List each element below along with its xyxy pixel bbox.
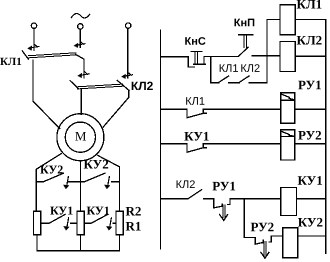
coil KU2 bbox=[283, 228, 298, 258]
KL1 coil feed wire bbox=[267, 18, 280, 20]
svg-text:КЛ2: КЛ2 bbox=[131, 79, 154, 93]
rung 2 wire bbox=[161, 108, 187, 110]
coil KL1 bbox=[280, 5, 295, 35]
svg-text:КУ1: КУ1 bbox=[184, 129, 209, 144]
wire KL2 pole1 output to motor bbox=[80, 89, 82, 115]
svg-text:РУ2: РУ2 bbox=[298, 128, 322, 143]
wire L1 vertical bbox=[33, 28, 35, 50]
svg-text:R2: R2 bbox=[125, 203, 141, 218]
contact tip arrow KL2 pole1 bbox=[81, 74, 89, 75]
coil RU1 (time relay) bbox=[281, 93, 295, 124]
rotor wire middle bbox=[79, 161, 81, 212]
terminal L1 bbox=[31, 23, 36, 28]
svg-text:КЛ2: КЛ2 bbox=[176, 179, 196, 191]
contactor KL2 main contacts (blade + linkage bar) bbox=[70, 81, 79, 89]
wire L3 vertical bbox=[127, 28, 129, 78]
resistor left section bbox=[33, 211, 40, 234]
contact KU2 left bbox=[36, 181, 43, 183]
svg-text:М: М bbox=[75, 129, 87, 144]
svg-text:КнС: КнС bbox=[185, 36, 206, 48]
contact KL1 (rung 2) bbox=[186, 109, 188, 117]
button KnP (start, NO) bbox=[239, 47, 249, 56]
rotor wire right bbox=[98, 156, 120, 212]
coil KL2 bbox=[280, 41, 295, 71]
svg-text:КУ2: КУ2 bbox=[298, 215, 323, 230]
rung 4 wire bbox=[161, 198, 189, 200]
svg-text:КЛ1: КЛ1 bbox=[219, 63, 239, 75]
rung 4 wire to coil KU1 bbox=[230, 198, 281, 200]
svg-text:КУ1: КУ1 bbox=[86, 203, 109, 217]
contact KL1 (holding) bbox=[219, 76, 229, 82]
contact RU2 (time-delay, NC) bbox=[255, 242, 263, 244]
wire to coil KU2 bbox=[271, 235, 283, 237]
resistor right section R2/R1 bbox=[116, 211, 123, 234]
svg-text:РУ2: РУ2 bbox=[250, 219, 274, 234]
rotor bottom wires bbox=[36, 235, 38, 251]
rung 3 wire bbox=[161, 143, 187, 145]
contact tip arrow L1 bbox=[31, 46, 39, 47]
terminal L3 bbox=[126, 23, 131, 28]
motor M stator circle bbox=[57, 114, 104, 161]
contact RU1 (time-delay, NC) bbox=[213, 199, 215, 208]
rung 1 wire after KnS bbox=[204, 55, 239, 57]
svg-text:РУ1: РУ1 bbox=[212, 178, 236, 193]
svg-text:КЛ2: КЛ2 bbox=[297, 33, 323, 48]
control bus right bbox=[325, 19, 327, 253]
wire L2 vertical bbox=[79, 29, 81, 47]
holding branch wire bbox=[211, 82, 219, 84]
motor M rotor circle bbox=[65, 122, 95, 152]
branch riser to RU2 contact bbox=[244, 199, 255, 244]
svg-text:КУ1: КУ1 bbox=[297, 173, 322, 188]
contact KL2 (rung 4) bbox=[188, 190, 202, 199]
svg-text:КУ2: КУ2 bbox=[83, 156, 108, 171]
svg-text:R1: R1 bbox=[125, 218, 141, 233]
resistor middle section bbox=[77, 211, 84, 234]
rotor common bottom wire bbox=[37, 250, 120, 252]
terminal L2 bbox=[78, 24, 83, 29]
svg-text:КУ1: КУ1 bbox=[50, 203, 73, 217]
svg-text:КУ2: КУ2 bbox=[40, 162, 63, 176]
svg-text:КЛ1: КЛ1 bbox=[185, 96, 205, 108]
control bus left bbox=[160, 30, 162, 249]
coil RU2 (time relay) bbox=[281, 130, 295, 160]
svg-text:КЛ1: КЛ1 bbox=[0, 56, 22, 68]
AC supply tilde bbox=[71, 14, 90, 18]
contact KU2 right bbox=[80, 181, 84, 183]
wire KL2 pole2 output to motor bbox=[103, 90, 128, 127]
coil KU1 bbox=[281, 188, 297, 216]
contactor KL1 main contacts (blade + linkage bar) bbox=[22, 51, 28, 59]
rung 1 wire after KnP bbox=[252, 55, 280, 57]
svg-text:РУ1: РУ1 bbox=[298, 77, 322, 92]
wire KL1 pole1 output to motor bbox=[33, 60, 60, 128]
contact KL2 (holding) bbox=[239, 76, 249, 82]
contact tip arrow L2 bbox=[77, 44, 85, 45]
svg-text:КЛ1: КЛ1 bbox=[297, 0, 323, 12]
riser feeding KL1 coil and holding branch bbox=[266, 19, 268, 82]
svg-text:КЛ2: КЛ2 bbox=[240, 63, 260, 75]
contact KU1 (rung 3) bbox=[186, 144, 188, 152]
node riser to holding branch bbox=[210, 56, 212, 82]
contact tip arrow L3 bbox=[125, 75, 133, 76]
contact KU1 right bbox=[84, 222, 91, 224]
button KnS (stop, NC) bbox=[188, 57, 194, 67]
svg-text:КнП: КнП bbox=[234, 17, 255, 29]
contact KU1 left bbox=[41, 222, 49, 224]
rotor wire left bbox=[36, 154, 61, 212]
wire KL1 pole2 output down to KL2 fixed contact bbox=[83, 59, 85, 77]
rung 1 wire bbox=[161, 56, 189, 58]
